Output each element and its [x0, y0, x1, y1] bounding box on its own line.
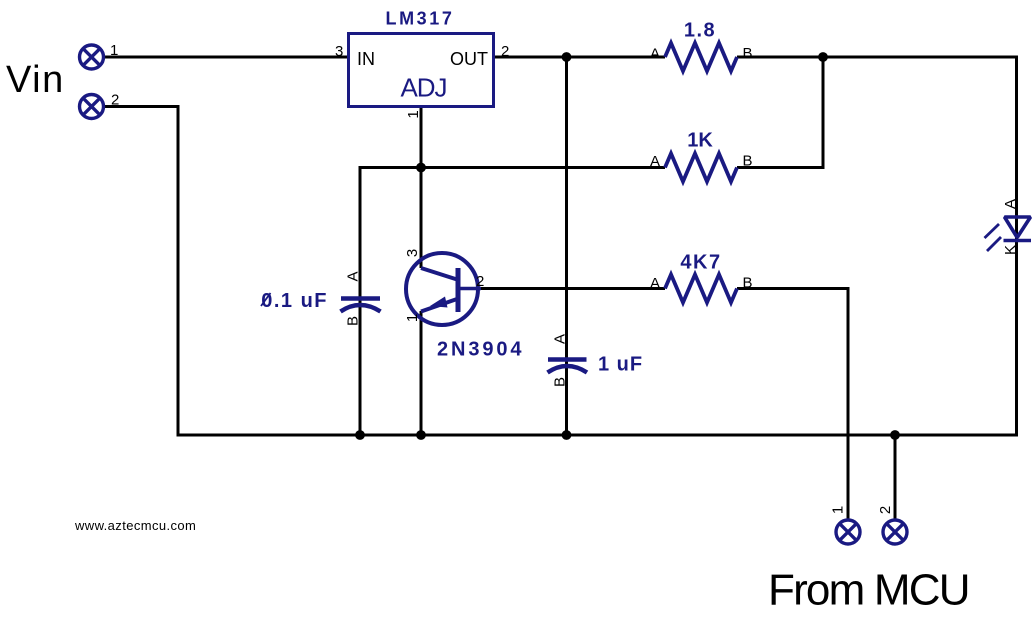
- transistor base bar: [456, 268, 461, 312]
- wire resistor 4K7 B right then down to MCU connector 1: [737, 289, 848, 520]
- junction dot bottom rail / MCU pin2: [890, 430, 900, 440]
- svg-text:2: 2: [501, 43, 509, 60]
- capacitor 1uF top plate: [548, 357, 587, 362]
- svg-text:A: A: [1002, 199, 1019, 209]
- wire transistor emitter pin 1 down to bottom rail: [420, 311, 423, 436]
- svg-text:2: 2: [877, 506, 894, 514]
- connector Vin pin 2: [80, 95, 104, 119]
- svg-text:B: B: [743, 45, 753, 62]
- wire down to 0.1uF cap top: [359, 166, 362, 436]
- svg-text:www.aztecmcu.com: www.aztecmcu.com: [74, 518, 196, 533]
- junction dot ADJ node: [416, 163, 426, 173]
- svg-text:2: 2: [111, 92, 119, 109]
- svg-text:B: B: [743, 153, 753, 170]
- wire OUT node down to 1uF cap top: [565, 57, 568, 435]
- svg-text:B: B: [743, 275, 753, 292]
- svg-text:1 uF: 1 uF: [598, 354, 643, 376]
- transistor collector line: [421, 268, 457, 280]
- svg-text:A: A: [650, 275, 660, 292]
- transistor emitter arrow: [430, 297, 448, 308]
- IC U1 LM317 body: [349, 34, 494, 107]
- svg-text:3: 3: [404, 249, 421, 257]
- svg-text:0.1 uF: 0.1 uF: [261, 290, 328, 312]
- wire ADJ node left and right to resistor 1K A: [360, 166, 665, 169]
- svg-text:A: A: [650, 153, 660, 170]
- connector From-MCU pin 2: [883, 520, 907, 544]
- wire Vin pin2 right then down to bottom rail: [104, 107, 178, 437]
- junction dot bottom rail / 1uF: [562, 430, 572, 440]
- svg-text:IN: IN: [357, 49, 375, 69]
- wire resistor 1K B up to OUT rail junction: [737, 57, 823, 168]
- svg-text:1K: 1K: [687, 130, 713, 152]
- LED light ray 2: [987, 237, 1001, 251]
- svg-text:K: K: [1002, 245, 1019, 255]
- svg-text:1: 1: [404, 314, 421, 322]
- svg-text:B: B: [552, 377, 569, 387]
- capacitor 1uF bottom curved plate: [548, 366, 588, 373]
- svg-text:4K7: 4K7: [680, 252, 721, 274]
- svg-text:1: 1: [830, 506, 847, 514]
- resistor 1.8: [665, 43, 737, 71]
- transistor emitter line: [421, 299, 457, 312]
- junction dot OUT rail / 1K feedback: [818, 52, 828, 62]
- LED D1 triangle: [1005, 217, 1031, 238]
- svg-text:A: A: [345, 271, 362, 281]
- svg-text:1: 1: [110, 42, 118, 59]
- transistor Q1 2N3904 body circle: [406, 253, 478, 325]
- svg-text:A: A: [650, 46, 660, 63]
- junction dot bottom rail / emitter: [416, 430, 426, 440]
- svg-text:1.8: 1.8: [684, 20, 716, 42]
- capacitor 0.1uF bottom curved plate: [341, 305, 381, 312]
- connector Vin pin 1: [80, 45, 104, 69]
- svg-text:2N3904: 2N3904: [437, 339, 524, 361]
- svg-text:Vin: Vin: [6, 59, 65, 101]
- wire LM317 OUT to resistor 1.8 A: [494, 56, 665, 59]
- junction dot OUT rail / 1uF branch: [562, 52, 572, 62]
- connector From-MCU pin 1: [836, 520, 860, 544]
- svg-text:LM317: LM317: [385, 9, 454, 29]
- wire LM317 ADJ pin down to node: [420, 105, 423, 168]
- svg-text:3: 3: [335, 43, 343, 60]
- svg-text:A: A: [552, 334, 569, 344]
- wire transistor base pin 2 to resistor 4K7 A: [481, 287, 665, 290]
- wire ADJ node down to transistor collector pin 3: [420, 168, 423, 269]
- transistor base pin stub: [458, 287, 481, 291]
- wire top rail from Vin pin1 to LM317 IN: [104, 56, 348, 59]
- LED cathode bar: [1004, 239, 1032, 242]
- svg-text:OUT: OUT: [450, 49, 488, 69]
- resistor 4K7: [665, 275, 737, 303]
- capacitor 0.1uF top plate: [341, 296, 380, 301]
- svg-text:1: 1: [405, 110, 422, 118]
- svg-text:B: B: [345, 316, 362, 326]
- resistor 1K: [665, 154, 737, 182]
- LED light ray 1: [985, 224, 1000, 238]
- svg-text:ADJ: ADJ: [400, 73, 446, 103]
- wire bottom rail junction down to MCU connector 2: [894, 435, 897, 520]
- slashed zero of 0.1 uF: [261, 293, 271, 306]
- junction dot bottom rail / 0.1uF: [355, 430, 365, 440]
- wire bottom ground rail: [177, 434, 1019, 437]
- svg-text:From MCU: From MCU: [768, 566, 969, 615]
- svg-text:2: 2: [476, 273, 484, 290]
- wire resistor 1.8 B to right edge then down to bottom rail: [737, 57, 1017, 435]
